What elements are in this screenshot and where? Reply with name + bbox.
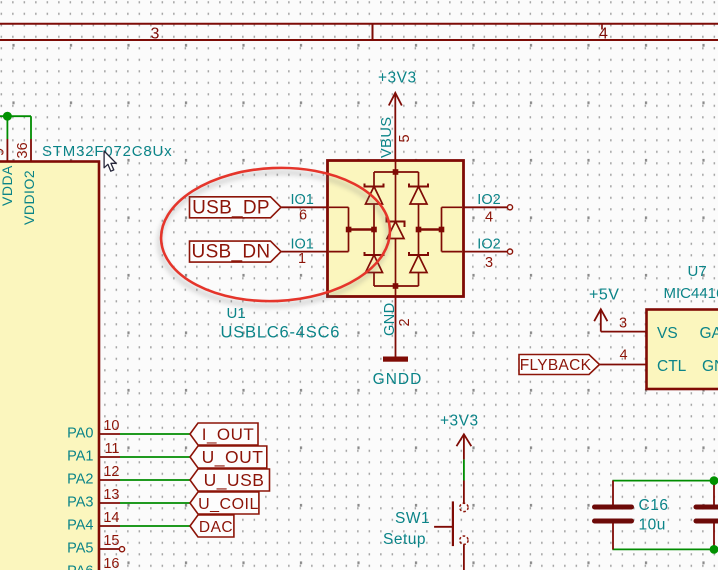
svg-text:I_OUT: I_OUT bbox=[202, 425, 255, 444]
svg-text:MIC4416: MIC4416 bbox=[664, 285, 718, 302]
svg-text:CTL: CTL bbox=[657, 358, 687, 375]
svg-text:4: 4 bbox=[599, 26, 608, 43]
svg-text:U_COIL: U_COIL bbox=[198, 496, 259, 513]
svg-text:11: 11 bbox=[104, 441, 119, 457]
svg-text:IO1: IO1 bbox=[291, 236, 314, 252]
svg-text:12: 12 bbox=[103, 464, 119, 480]
svg-text:16: 16 bbox=[103, 556, 119, 570]
svg-text:PA2: PA2 bbox=[67, 472, 93, 488]
svg-text:GND: GND bbox=[702, 358, 718, 375]
svg-text:+5V: +5V bbox=[589, 287, 619, 304]
svg-text:PA0: PA0 bbox=[67, 426, 93, 442]
svg-text:PA3: PA3 bbox=[67, 495, 93, 511]
svg-text:10: 10 bbox=[103, 418, 119, 434]
svg-text:USBLC6-4SC6: USBLC6-4SC6 bbox=[221, 324, 341, 342]
svg-text:VBUS: VBUS bbox=[379, 117, 395, 159]
svg-text:4: 4 bbox=[485, 210, 493, 226]
svg-text:GATE: GATE bbox=[700, 325, 718, 342]
svg-text:DAC: DAC bbox=[199, 519, 233, 536]
svg-text:VDDIO2: VDDIO2 bbox=[21, 170, 37, 225]
svg-text:+3V3: +3V3 bbox=[378, 70, 417, 87]
svg-text:Setup: Setup bbox=[383, 531, 426, 548]
svg-text:C16: C16 bbox=[639, 497, 669, 514]
svg-text:PA6: PA6 bbox=[67, 564, 93, 570]
svg-text:VDDA: VDDA bbox=[0, 165, 15, 206]
svg-text:2: 2 bbox=[397, 318, 413, 326]
svg-text:IO1: IO1 bbox=[291, 192, 314, 208]
svg-text:PA5: PA5 bbox=[67, 541, 93, 557]
svg-text:GND: GND bbox=[382, 302, 398, 336]
svg-text:U7: U7 bbox=[688, 263, 707, 280]
svg-text:PA1: PA1 bbox=[67, 449, 93, 465]
svg-text:13: 13 bbox=[103, 487, 119, 503]
svg-text:36: 36 bbox=[15, 142, 31, 158]
svg-text:10u: 10u bbox=[639, 517, 666, 534]
svg-text:3: 3 bbox=[151, 26, 160, 43]
svg-text:USB_DP: USB_DP bbox=[192, 197, 270, 218]
svg-text:5: 5 bbox=[397, 134, 413, 142]
svg-text:U_OUT: U_OUT bbox=[202, 447, 264, 468]
svg-text:FLYBACK: FLYBACK bbox=[520, 357, 592, 374]
svg-text:GNDD: GNDD bbox=[373, 371, 423, 388]
svg-text:1: 1 bbox=[298, 251, 306, 267]
svg-text:VS: VS bbox=[657, 325, 678, 342]
svg-text:3: 3 bbox=[619, 316, 627, 332]
svg-text:USB_DN: USB_DN bbox=[192, 242, 271, 263]
svg-text:6: 6 bbox=[299, 208, 307, 224]
svg-text:U_USB: U_USB bbox=[204, 470, 265, 491]
svg-text:3: 3 bbox=[485, 255, 493, 271]
svg-text:IO2: IO2 bbox=[477, 192, 500, 208]
svg-text:PA4: PA4 bbox=[67, 518, 93, 534]
svg-text:15: 15 bbox=[103, 533, 119, 549]
svg-text:SW1: SW1 bbox=[395, 510, 430, 527]
svg-text:4: 4 bbox=[619, 348, 627, 364]
svg-text:14: 14 bbox=[103, 510, 119, 526]
svg-text:U1: U1 bbox=[227, 305, 246, 322]
svg-text:9: 9 bbox=[0, 148, 8, 156]
svg-text:+3V3: +3V3 bbox=[440, 413, 479, 430]
svg-text:IO2: IO2 bbox=[477, 236, 500, 252]
